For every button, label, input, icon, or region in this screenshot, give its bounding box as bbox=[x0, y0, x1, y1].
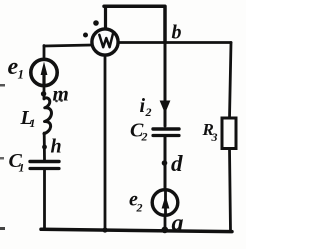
svg-text:1: 1 bbox=[30, 116, 36, 130]
svg-text:h: h bbox=[51, 136, 62, 158]
svg-text:1: 1 bbox=[18, 67, 25, 82]
svg-text:2: 2 bbox=[141, 130, 148, 144]
svg-text:b: b bbox=[172, 22, 182, 44]
svg-text:3: 3 bbox=[211, 130, 218, 144]
svg-text:m: m bbox=[53, 82, 69, 106]
svg-text:1: 1 bbox=[19, 161, 25, 175]
svg-text:a: a bbox=[172, 211, 184, 237]
svg-text:d: d bbox=[171, 151, 183, 176]
svg-text:2: 2 bbox=[145, 105, 152, 119]
svg-text:2: 2 bbox=[136, 201, 143, 215]
